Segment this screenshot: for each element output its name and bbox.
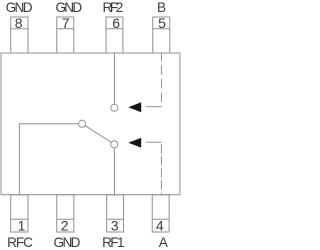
svg-text:5: 5: [158, 15, 166, 31]
svg-text:7: 7: [62, 15, 70, 31]
svg-text:A: A: [159, 235, 169, 250]
svg-text:4: 4: [156, 217, 164, 233]
svg-text:GND: GND: [55, 0, 82, 15]
svg-text:RFC: RFC: [7, 235, 33, 250]
svg-text:B: B: [157, 0, 166, 15]
svg-text:8: 8: [15, 15, 23, 31]
svg-text:1: 1: [18, 217, 26, 233]
svg-text:GND: GND: [54, 235, 81, 250]
svg-text:GND: GND: [6, 0, 33, 15]
svg-text:RF1: RF1: [102, 235, 124, 250]
svg-text:3: 3: [111, 217, 119, 233]
svg-text:RF2: RF2: [103, 0, 124, 15]
svg-text:6: 6: [112, 15, 120, 31]
svg-text:2: 2: [61, 217, 69, 233]
